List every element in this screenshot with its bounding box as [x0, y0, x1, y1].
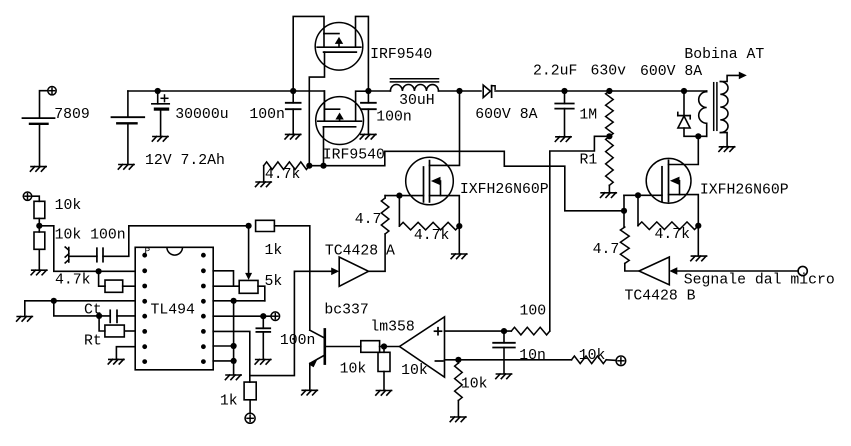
svg-text:TC4428 B: TC4428 B	[625, 288, 696, 304]
svg-text:630v: 630v	[591, 64, 627, 80]
svg-text:IXFH26N60P: IXFH26N60P	[460, 182, 549, 198]
svg-text:1k: 1k	[220, 393, 238, 409]
svg-text:30000u: 30000u	[175, 107, 228, 123]
svg-text:10k 100n: 10k 100n	[55, 228, 126, 244]
svg-text:4.7: 4.7	[355, 212, 382, 228]
svg-text:600V 8A: 600V 8A	[640, 64, 702, 80]
svg-text:10k: 10k	[55, 198, 82, 214]
svg-text:Rt: Rt	[84, 333, 102, 349]
svg-text:TL494: TL494	[151, 302, 196, 318]
svg-text:TC4428: TC4428	[325, 243, 378, 259]
svg-text:100: 100	[520, 303, 547, 319]
svg-text:100n: 100n	[249, 107, 285, 123]
svg-text:10k: 10k	[579, 348, 606, 364]
svg-text:Segnale dal micro: Segnale dal micro	[684, 272, 835, 288]
svg-text:Bobina AT: Bobina AT	[684, 47, 764, 63]
svg-text:IRF9540: IRF9540	[323, 147, 385, 163]
svg-text:4.7k: 4.7k	[265, 167, 301, 183]
svg-text:bc337: bc337	[324, 303, 368, 319]
svg-text:100n: 100n	[376, 110, 412, 126]
svg-text:100n: 100n	[280, 333, 316, 349]
svg-text:7809: 7809	[54, 107, 90, 123]
svg-text:12V 7.2Ah: 12V 7.2Ah	[145, 153, 225, 169]
svg-text:A: A	[386, 244, 395, 260]
svg-text:P: P	[145, 246, 151, 257]
svg-text:5k: 5k	[265, 274, 283, 290]
svg-text:4.7k: 4.7k	[414, 228, 450, 244]
svg-text:4.7k: 4.7k	[55, 273, 91, 289]
svg-text:IRF9540: IRF9540	[370, 47, 432, 63]
svg-text:R1: R1	[580, 153, 598, 169]
svg-text:10k: 10k	[461, 377, 488, 393]
svg-text:4.7: 4.7	[593, 242, 620, 258]
svg-text:2.2uF: 2.2uF	[533, 64, 577, 80]
svg-text:600V 8A: 600V 8A	[475, 107, 537, 123]
svg-text:10k: 10k	[340, 361, 367, 377]
svg-text:10k: 10k	[401, 363, 428, 379]
svg-text:Ct: Ct	[84, 303, 102, 319]
svg-text:lm358: lm358	[370, 320, 414, 336]
svg-text:IXFH26N60P: IXFH26N60P	[700, 182, 789, 198]
svg-text:1k: 1k	[265, 243, 283, 259]
svg-text:1M: 1M	[579, 107, 597, 123]
svg-text:30uH: 30uH	[399, 93, 435, 109]
svg-text:10n: 10n	[519, 348, 546, 364]
svg-text:4.7k: 4.7k	[655, 227, 691, 243]
